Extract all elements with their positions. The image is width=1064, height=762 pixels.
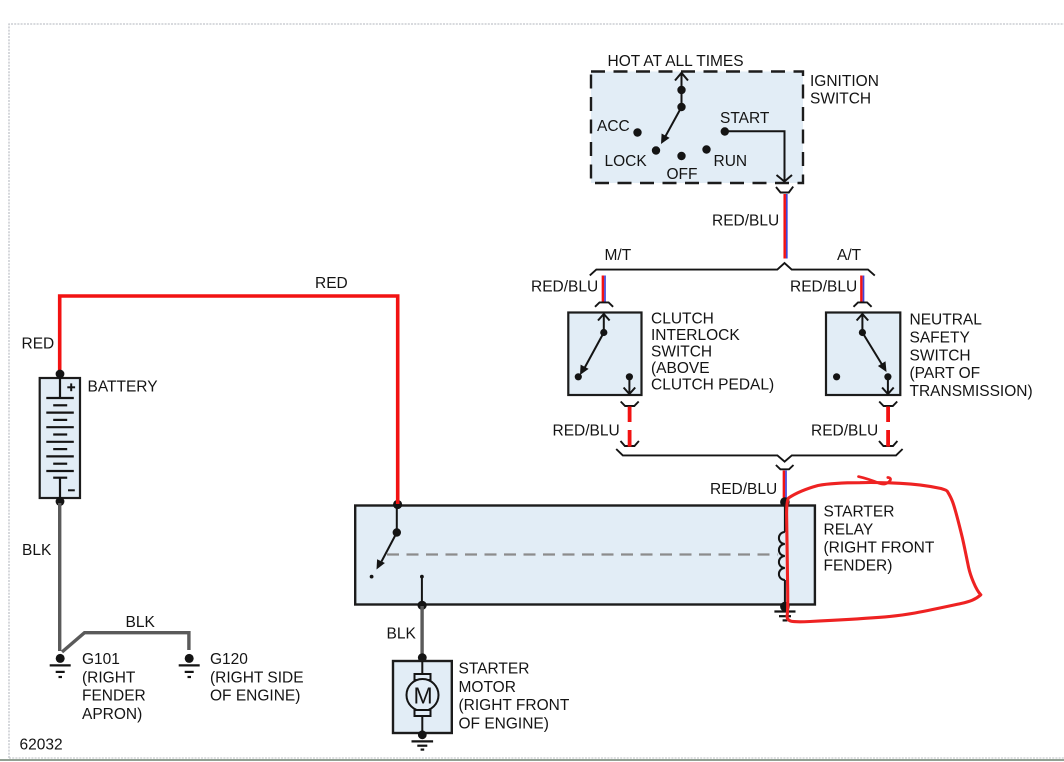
wire BLK relay to starter motor [420, 606, 423, 657]
svg-text:(RIGHT SIDE: (RIGHT SIDE [210, 669, 304, 686]
svg-text:RELAY: RELAY [824, 522, 874, 539]
svg-text:SWITCH: SWITCH [651, 344, 712, 361]
connector: female cup above clutch interlock switch [595, 302, 613, 306]
wire RED/BLU to relay [783, 471, 786, 501]
node: battery positive terminal dot [56, 370, 65, 379]
node LOCK contact [652, 146, 660, 154]
node: ignition feed dot upper [677, 86, 685, 94]
switch arm clutch open [585, 333, 604, 369]
svg-text:(ABOVE: (ABOVE [651, 360, 710, 377]
node: relay output contact (small) [420, 575, 424, 579]
wire RED/BLU A/T branch [860, 276, 863, 303]
battery plus sign [67, 386, 75, 388]
svg-text:STARTER: STARTER [824, 504, 895, 521]
svg-text:SWITCH: SWITCH [910, 347, 971, 364]
wire RED/BLU from ignition to splice bracket [783, 194, 786, 259]
svg-text:CLUTCH: CLUTCH [651, 311, 714, 328]
svg-text:HOT AT ALL TIMES: HOT AT ALL TIMES [608, 53, 744, 70]
clutch switch input arrow up [603, 315, 605, 333]
connector: female cup below clutch switch [621, 402, 639, 407]
motor ground stem [421, 716, 423, 733]
svg-text:RED: RED [22, 336, 55, 353]
battery negative terminal [53, 477, 67, 479]
svg-text:OF ENGINE): OF ENGINE) [459, 715, 549, 732]
neutral safety switch S2 box [826, 313, 900, 396]
connector: female cup above neutral safety switch [854, 302, 872, 306]
svg-text:FENDER): FENDER) [824, 558, 893, 575]
annotation: red hand-drawn loop around starter relay label [787, 482, 981, 621]
node neutral lower-left contact [833, 373, 840, 380]
node: relay arm rest contact (small) [370, 575, 374, 579]
clutch interlock switch S1 box [568, 313, 641, 396]
svg-text:M: M [414, 683, 433, 709]
motor brush cap top [415, 674, 431, 680]
svg-text:RED/BLU: RED/BLU [531, 279, 598, 296]
svg-text:RUN: RUN [714, 153, 748, 170]
motor brush cap bottom [415, 710, 431, 716]
relay internal dashed link [387, 553, 778, 555]
svg-text:RED/BLU: RED/BLU [811, 423, 878, 440]
neutral switch input arrow up [861, 315, 863, 333]
connector: female cup at clutch branch end [621, 441, 639, 446]
node: battery negative terminal dot [56, 497, 65, 506]
starter relay K1 box [355, 506, 815, 605]
svg-text:BATTERY: BATTERY [88, 379, 158, 396]
wire relay output to box edge [421, 577, 423, 605]
node clutch lower-right contact [626, 373, 633, 380]
node ACC contact [633, 128, 641, 136]
svg-text:SAFETY: SAFETY [910, 329, 970, 346]
svg-text:NEUTRAL: NEUTRAL [910, 312, 983, 329]
svg-text:BLK: BLK [387, 626, 417, 643]
svg-text:OFF: OFF [667, 166, 698, 183]
wire RED/BLU M/T branch [602, 276, 605, 303]
node clutch pivot dot [600, 329, 607, 336]
clutch output arrow down [628, 377, 630, 394]
wire RED/BLU dashed below neutral [886, 407, 890, 423]
connector: female cup below ignition switch [776, 187, 793, 193]
svg-text:BLK: BLK [22, 542, 52, 559]
node: relay output terminal dot [418, 601, 427, 610]
motor circle with M [407, 679, 439, 711]
ground G101 [56, 654, 65, 663]
node: starter motor supply dot [418, 653, 427, 662]
svg-text:LOCK: LOCK [605, 153, 648, 170]
node: relay switch pivot dot [393, 528, 401, 536]
node: ignition switch pivot dot [677, 103, 685, 111]
ignition switch box U1 [591, 72, 803, 184]
switch arm neutral closed [862, 333, 882, 365]
relay switch stem [396, 505, 398, 533]
wire BLK branch to G120 [62, 633, 189, 652]
connector: female cup below neutral switch [879, 402, 897, 407]
ground: relay coil ground [774, 610, 795, 612]
svg-text:(RIGHT: (RIGHT [82, 669, 136, 686]
svg-text:START: START [720, 110, 770, 127]
node START contact [721, 127, 729, 135]
svg-text:BLK: BLK [126, 614, 156, 631]
svg-text:62032: 62032 [20, 737, 63, 754]
svg-text:RED/BLU: RED/BLU [712, 213, 779, 230]
battery BAT box [40, 378, 80, 498]
wire: START output with arrow down [725, 131, 785, 181]
wire RED/BLU dashed below clutch [628, 407, 632, 423]
bottom window edge line [0, 759, 1064, 761]
node neutral lower-right contact [884, 373, 891, 380]
svg-text:RED/BLU: RED/BLU [710, 481, 777, 498]
svg-text:CLUTCH PEDAL): CLUTCH PEDAL) [651, 377, 774, 394]
node clutch lower-left contact [575, 373, 582, 380]
svg-text:(RIGHT FRONT: (RIGHT FRONT [824, 540, 935, 557]
wire RED battery to relay [60, 296, 398, 504]
ground G120 [185, 654, 194, 663]
svg-text:ACC: ACC [597, 118, 630, 135]
svg-text:SWITCH: SWITCH [810, 91, 871, 108]
svg-text:RED: RED [315, 275, 348, 292]
ground: starter motor [412, 740, 434, 742]
starter motor M1 box [393, 661, 452, 733]
node: starter motor ground dot [418, 730, 427, 739]
svg-text:M/T: M/T [605, 247, 632, 264]
svg-text:TRANSMISSION): TRANSMISSION) [910, 383, 1033, 400]
connector: female cup at neutral branch end [879, 441, 897, 446]
relay coil L1 [784, 502, 786, 532]
svg-text:INTERLOCK: INTERLOCK [651, 327, 740, 344]
svg-text:G101: G101 [82, 651, 120, 668]
wire: ignition feed arrow up [681, 74, 683, 91]
svg-text:STARTER: STARTER [459, 661, 530, 678]
svg-text:MOTOR: MOTOR [459, 679, 516, 696]
splice bracket M/T-A/T [590, 263, 875, 276]
svg-text:FENDER: FENDER [82, 688, 146, 705]
svg-text:IGNITION: IGNITION [810, 73, 879, 90]
node neutral pivot dot [859, 329, 866, 336]
node RUN contact [702, 145, 710, 153]
svg-text:RED/BLU: RED/BLU [790, 279, 857, 296]
neutral output arrow down [887, 377, 889, 394]
battery plates [46, 397, 74, 399]
connector: female cup below join bracket [776, 465, 794, 469]
battery minus sign [68, 489, 75, 491]
wire BLK battery to G101 [58, 503, 61, 651]
join bracket to starter relay [616, 449, 902, 462]
relay switch arm open [382, 533, 397, 562]
node: relay coil supply dot [780, 497, 790, 507]
svg-text:(RIGHT FRONT: (RIGHT FRONT [459, 697, 570, 714]
switch arm: ignition wiper to LOCK [665, 107, 682, 138]
svg-text:OF ENGINE): OF ENGINE) [210, 688, 300, 705]
node: relay coil ground dot [780, 602, 790, 612]
svg-text:G120: G120 [210, 651, 248, 668]
svg-text:RED/BLU: RED/BLU [553, 423, 620, 440]
motor feed stem [421, 661, 423, 674]
battery positive stem [59, 378, 61, 398]
node: relay battery terminal dot [393, 500, 402, 509]
svg-text:(PART OF: (PART OF [910, 365, 981, 382]
annotation: red scribble twist at top [859, 477, 891, 484]
node OFF contact [677, 152, 685, 160]
svg-text:APRON): APRON) [82, 706, 142, 723]
svg-text:A/T: A/T [837, 247, 862, 264]
